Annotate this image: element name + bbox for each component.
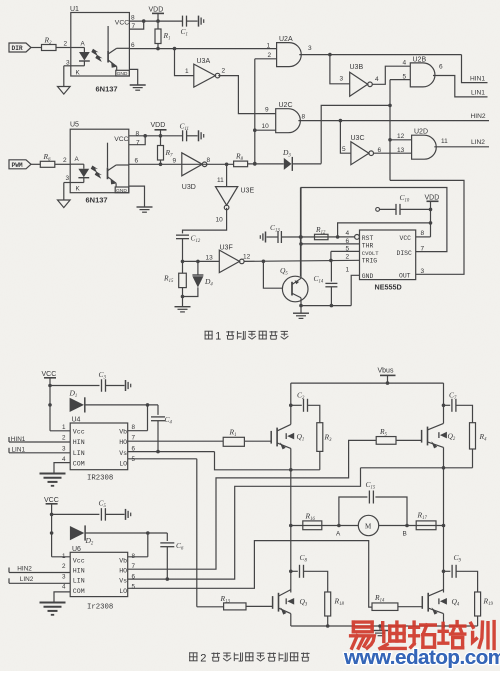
wire DISC feedback	[301, 188, 447, 252]
svg-text:6N137: 6N137	[96, 85, 118, 94]
inverter U3B	[350, 72, 368, 96]
wire D3 to PWM vertical	[321, 105, 390, 163]
svg-text:DISC: DISC	[397, 250, 413, 257]
wire Q1 emitter phase A	[290, 448, 292, 592]
svg-text:HIN2: HIN2	[471, 113, 486, 120]
svg-text:U3B: U3B	[350, 64, 364, 71]
optocoupler U1 6N137	[71, 13, 130, 77]
ground at C1	[198, 16, 200, 27]
svg-text:1: 1	[62, 553, 66, 560]
wire U2C output HIN2	[298, 120, 489, 122]
wire U1 output	[129, 48, 276, 50]
wire Q5 emitter to gnd line	[300, 298, 302, 306]
wire RST tie to VDD	[338, 223, 431, 237]
resistor R17	[416, 521, 436, 530]
caption figure 1	[205, 330, 213, 332]
wire pin8 rail	[129, 20, 182, 22]
AND gate U2B	[410, 63, 435, 87]
capacitor C1	[182, 16, 184, 27]
svg-text:Vb: Vb	[119, 557, 127, 564]
ground at C13	[265, 232, 267, 243]
svg-text:HIN: HIN	[73, 568, 85, 575]
transistor Q3 IGBT	[272, 596, 274, 609]
svg-text:U3E: U3E	[241, 188, 255, 195]
wire U4 LO to R13	[128, 458, 197, 460]
diode D2	[70, 526, 84, 540]
transistor Q1 IGBT	[270, 431, 272, 444]
wire U6 pin stubs	[128, 556, 148, 558]
svg-text:8: 8	[132, 424, 136, 431]
input DIR	[9, 43, 31, 52]
svg-text:NE555D: NE555D	[375, 283, 402, 292]
node U3F input	[181, 260, 185, 264]
bus U6 HO to R5	[128, 440, 377, 569]
svg-text:GND: GND	[116, 188, 127, 194]
svg-text:LO: LO	[119, 461, 127, 468]
svg-text:5: 5	[132, 584, 136, 591]
svg-text:1: 1	[346, 267, 350, 274]
svg-text:8: 8	[131, 15, 135, 22]
zener D4	[197, 261, 199, 275]
capacitor C3	[50, 385, 100, 387]
svg-text:COM: COM	[73, 588, 85, 595]
caption figure 2	[189, 652, 198, 654]
svg-text:LIN: LIN	[73, 450, 85, 457]
svg-text:4: 4	[346, 230, 350, 237]
svg-text:7: 7	[136, 140, 140, 147]
AND gate U2A	[277, 43, 302, 67]
inverter U3E	[226, 164, 228, 186]
svg-text:U3C: U3C	[351, 135, 365, 142]
wire U2A output to HIN1	[299, 54, 461, 56]
svg-text:U1: U1	[70, 6, 79, 13]
AND gate U2C	[276, 109, 301, 133]
svg-text:Vcc: Vcc	[73, 429, 85, 436]
svg-text:VDD: VDD	[425, 195, 440, 202]
svg-text:VDD: VDD	[151, 122, 166, 129]
wire motor row	[291, 525, 444, 527]
svg-text:CVOLT: CVOLT	[362, 250, 379, 257]
svg-text:Vs: Vs	[119, 450, 127, 457]
capacitor C6	[166, 533, 168, 541]
svg-text:U3A: U3A	[197, 58, 211, 65]
ground below U5 pin3	[64, 182, 70, 184]
svg-text:DIR: DIR	[12, 45, 23, 52]
svg-text:4: 4	[62, 584, 66, 591]
svg-text:HO: HO	[119, 439, 127, 446]
resistor R1 gate Q1	[223, 437, 244, 446]
ground at U6 COM	[54, 592, 70, 603]
capacitor C10	[376, 208, 380, 212]
wire U4 HO to R1	[128, 440, 224, 442]
svg-text:6: 6	[135, 158, 139, 165]
svg-text:VCC: VCC	[42, 371, 57, 378]
wire Q2 emitter phase B	[443, 447, 445, 592]
wire to U3A	[175, 49, 194, 76]
svg-text:VCC: VCC	[115, 20, 129, 27]
U5 internal gnd to earth	[129, 186, 145, 207]
capacitor C2	[289, 404, 293, 408]
wire D2 node	[85, 532, 167, 534]
wire U3E out to C12	[183, 208, 227, 234]
svg-text:13: 13	[206, 255, 214, 262]
svg-text:11: 11	[217, 177, 224, 184]
svg-text:6: 6	[131, 42, 135, 49]
svg-text:3: 3	[62, 445, 66, 452]
bus U6 Vs to phase B	[128, 468, 361, 579]
resistor R13 gate Q3	[224, 603, 246, 610]
svg-text:A: A	[336, 531, 341, 538]
input PWM	[9, 160, 31, 169]
motor M	[358, 515, 378, 535]
wire PWM to 555 OUT	[390, 180, 464, 274]
svg-text:U6: U6	[72, 546, 81, 553]
svg-text:4: 4	[375, 76, 379, 83]
svg-text:U3D: U3D	[182, 184, 196, 191]
wire Q1 collector to Vbus rail	[290, 383, 292, 424]
resistor R19 (vertical)	[475, 592, 481, 616]
svg-text:PWM: PWM	[12, 162, 23, 169]
resistor R12	[315, 234, 329, 239]
diode D3	[284, 158, 292, 170]
svg-text:U2D: U2D	[414, 129, 428, 136]
inverter U3F	[219, 250, 239, 273]
wire U5 output line	[129, 163, 234, 165]
wire HIN2 to U3C	[340, 121, 351, 154]
svg-text:1: 1	[215, 331, 221, 343]
svg-text:Vb: Vb	[119, 429, 127, 436]
svg-text:Ir2308: Ir2308	[87, 604, 113, 612]
ground at U4 COM	[54, 463, 70, 474]
svg-text:3: 3	[66, 175, 70, 182]
wire PWM net vertical	[390, 79, 410, 81]
wire Q5 collector	[300, 188, 302, 279]
resistor R8	[234, 161, 248, 167]
RST bubble	[355, 235, 360, 240]
svg-text:2: 2	[222, 68, 226, 75]
capacitor C12	[176, 234, 189, 236]
svg-text:HIN2: HIN2	[17, 566, 32, 573]
svg-text:11: 11	[441, 138, 448, 145]
wire U3F out / TRIG line	[244, 260, 360, 261]
capacitor C9	[444, 570, 451, 572]
inverter U3D	[182, 153, 203, 176]
svg-text:3: 3	[308, 45, 312, 52]
ground below R15	[175, 306, 191, 308]
wire RST / R12 line	[281, 236, 354, 238]
svg-text:HIN1: HIN1	[470, 76, 485, 83]
wire THR	[301, 243, 360, 245]
capacitor C4	[157, 405, 159, 415]
capacitor C11	[182, 130, 184, 141]
svg-text:3: 3	[62, 573, 66, 580]
resistor R1	[157, 21, 159, 29]
svg-text:2: 2	[64, 41, 68, 48]
svg-text:TRIG: TRIG	[362, 258, 378, 265]
svg-text:VDD: VDD	[149, 7, 164, 14]
wire U5 pin7 tie	[129, 136, 145, 145]
transistor Q4 IGBT	[421, 596, 423, 609]
svg-text:12: 12	[397, 133, 405, 140]
svg-text:12: 12	[243, 254, 251, 261]
svg-text:IR2308: IR2308	[87, 475, 113, 483]
ground at C3	[125, 380, 127, 391]
svg-text:13: 13	[397, 147, 405, 154]
inverter U3A	[194, 64, 216, 87]
svg-text:U2A: U2A	[279, 36, 293, 43]
wire PWM to U2D pin12	[390, 139, 412, 141]
wire GND pin drop	[351, 275, 359, 305]
diode D1	[70, 398, 84, 412]
svg-text:9: 9	[173, 158, 177, 165]
svg-text:U2B: U2B	[413, 57, 427, 64]
svg-text:10: 10	[262, 123, 270, 130]
IC U4 IR2308	[70, 423, 128, 470]
svg-text:Vbus: Vbus	[378, 368, 394, 375]
bus U6 LO to R14	[128, 541, 372, 608]
resistor R14 gate Q4	[372, 603, 398, 611]
svg-text:1: 1	[267, 43, 271, 50]
svg-text:2: 2	[63, 157, 67, 164]
wire U3C out to U2D pin13	[373, 152, 411, 154]
U1 internal gnd to earth	[129, 69, 137, 85]
ground at C5	[125, 509, 127, 520]
wire Q3 emitter to rail	[290, 614, 292, 626]
svg-text:THR: THR	[362, 243, 374, 250]
transistor Q2 IGBT	[421, 430, 423, 443]
svg-text:VCC: VCC	[400, 235, 412, 242]
resistor R6	[40, 161, 55, 167]
svg-text:2: 2	[346, 253, 350, 260]
wire pin7 tie	[129, 21, 143, 29]
resistor R3 (vertical)	[317, 423, 323, 452]
capacitor C5	[52, 513, 100, 515]
svg-text:2: 2	[62, 563, 66, 570]
AND gate U2D	[412, 135, 437, 159]
gnd line under 555	[301, 305, 351, 307]
svg-text:1: 1	[185, 68, 189, 75]
inverter U3C	[351, 142, 369, 165]
wire U2D output LIN2	[434, 146, 489, 148]
svg-text:HO: HO	[119, 568, 127, 575]
svg-text:8: 8	[421, 230, 425, 237]
svg-text:GND: GND	[117, 71, 128, 77]
svg-text:6N137: 6N137	[86, 196, 108, 205]
svg-text:U2C: U2C	[279, 102, 293, 109]
svg-text:www.edatop.com: www.edatop.com	[343, 646, 500, 669]
svg-text:Vcc: Vcc	[73, 557, 85, 564]
svg-text:1: 1	[62, 424, 66, 431]
svg-text:5: 5	[132, 456, 136, 463]
resistor R15	[182, 261, 184, 273]
wire U3B out to U2B pin4	[372, 66, 410, 84]
svg-text:7: 7	[132, 563, 136, 570]
wire phase B line	[361, 467, 473, 469]
watermark logo text	[351, 622, 495, 649]
wire CVOLT/TRIG vertical	[331, 250, 360, 252]
svg-text:2: 2	[268, 52, 272, 59]
wire U5 pin8 rail	[129, 135, 183, 137]
svg-text:GND: GND	[362, 273, 374, 280]
wire Q2 collector	[443, 383, 445, 423]
svg-text:3: 3	[340, 76, 344, 83]
wire U2B output to LIN1	[433, 76, 488, 97]
svg-text:2: 2	[62, 435, 66, 442]
transistor Q5	[282, 276, 308, 302]
svg-text:COM: COM	[73, 461, 85, 468]
resistor R18 (vertical)	[325, 592, 331, 616]
wire U2A out to U3B	[330, 55, 350, 84]
svg-text:3: 3	[421, 268, 425, 275]
wire U3A out to U2C pin9	[218, 76, 276, 114]
svg-text:HIN: HIN	[73, 439, 85, 446]
svg-text:LIN1: LIN1	[471, 90, 485, 97]
resistor R4 (vertical)	[470, 423, 476, 449]
svg-text:VCC: VCC	[114, 136, 128, 143]
resistor R16	[303, 521, 322, 530]
svg-text:6: 6	[439, 64, 443, 71]
IC U6 IR2308	[70, 552, 128, 596]
optocoupler U5 6N137	[70, 129, 129, 193]
resistor R7	[160, 136, 162, 146]
ground rail bottom	[291, 625, 478, 627]
resistor R2	[42, 45, 57, 51]
svg-text:VCC: VCC	[44, 497, 59, 504]
resistor R5 gate Q2	[376, 437, 396, 445]
ground at C11	[198, 130, 200, 141]
svg-text:9: 9	[265, 107, 269, 114]
svg-text:4: 4	[403, 60, 407, 67]
wire Vs U4 to phase A	[128, 451, 215, 453]
svg-text:LIN: LIN	[73, 578, 85, 585]
svg-text:M: M	[365, 523, 372, 531]
svg-text:U4: U4	[72, 417, 81, 424]
wire D1 node	[85, 404, 158, 406]
svg-text:5: 5	[342, 146, 346, 153]
svg-text:B: B	[403, 531, 407, 538]
wire Q4 emitter to rail	[443, 614, 445, 626]
svg-text:8: 8	[302, 114, 306, 121]
svg-text:LIN2: LIN2	[20, 576, 34, 583]
capacitor C8	[291, 570, 298, 572]
wire U2A pin2 / U2C pin10 vertical	[255, 58, 277, 60]
svg-text:8: 8	[136, 131, 140, 138]
capacitor C7	[442, 404, 446, 408]
svg-text:10: 10	[216, 217, 224, 224]
svg-text:OUT: OUT	[399, 272, 411, 279]
svg-text:8: 8	[207, 157, 211, 164]
svg-text:U5: U5	[70, 122, 79, 129]
capacitor C13	[277, 231, 279, 243]
svg-text:RST: RST	[362, 235, 374, 242]
svg-text:U3F: U3F	[220, 245, 233, 252]
IC NE555D	[360, 230, 416, 280]
svg-text:6: 6	[132, 573, 136, 580]
svg-text:LIN2: LIN2	[471, 139, 485, 146]
wire Vbus rail	[291, 382, 444, 384]
capacitor C15	[339, 497, 368, 526]
svg-text:Vs: Vs	[119, 578, 127, 585]
capacitor C14	[330, 260, 332, 281]
ground below U1 pin3	[64, 65, 71, 67]
svg-text:LO: LO	[119, 588, 127, 595]
svg-text:2: 2	[200, 653, 206, 665]
wire to Q5 base	[263, 261, 282, 288]
